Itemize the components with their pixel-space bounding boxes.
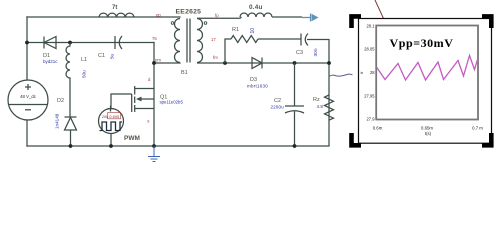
diode D3 [252, 58, 262, 69]
svg-text:28.1: 28.1 [367, 24, 376, 29]
svg-text:50u: 50u [82, 70, 87, 78]
svg-text:2200u: 2200u [271, 105, 285, 110]
svg-text:fp: fp [215, 13, 219, 18]
wire C1 to pm [153, 43, 155, 64]
node junction (154,63) [152, 61, 156, 65]
resistor R1 [231, 36, 258, 43]
inductor L1 [66, 43, 70, 118]
svg-text:mbrt1630: mbrt1630 [247, 84, 268, 89]
svg-text:L1: L1 [81, 57, 87, 63]
wire probe stub [272, 16, 302, 18]
svg-text:C2: C2 [274, 98, 281, 104]
node junction (154,146) [152, 144, 156, 148]
svg-text:5u: 5u [110, 53, 115, 59]
node junction (111,146) [109, 144, 113, 148]
node junction (70,42) [68, 41, 72, 45]
scope outer box [359, 19, 492, 144]
scope corner handle TL [352, 16, 362, 28]
svg-text:0.7 m: 0.7 m [472, 125, 483, 130]
source V1 dc [8, 80, 48, 120]
wire C3 to output node [307, 40, 329, 147]
svg-text:pm: pm [155, 58, 161, 63]
svg-text:byd21c: byd21c [43, 59, 58, 64]
node junction (296,146) [293, 144, 297, 148]
svg-text:D2: D2 [57, 98, 64, 104]
svg-text:27.95: 27.95 [364, 94, 375, 99]
wire R1 branch up [225, 39, 231, 63]
resistor Rz [325, 95, 334, 120]
transformer B1 [171, 19, 207, 63]
svg-text:0.4u: 0.4u [249, 4, 263, 11]
probe arrow [302, 14, 319, 22]
svg-text:20k 0.695: 20k 0.695 [102, 114, 120, 119]
svg-text:28: 28 [370, 70, 375, 75]
svg-text:Rz: Rz [313, 97, 320, 103]
capacitor C2 [285, 63, 304, 146]
svg-text:C3: C3 [296, 50, 303, 56]
diode D2 [65, 117, 77, 146]
svg-text:B1: B1 [181, 70, 188, 76]
wire top rail [27, 16, 180, 18]
capacitor C1 [115, 36, 122, 49]
svg-text:0.6m: 0.6m [373, 125, 383, 130]
svg-text:pp: pp [156, 13, 161, 18]
wire secondary top [197, 17, 242, 18]
node junction (27,42) [25, 41, 29, 45]
svg-text:R1: R1 [232, 27, 239, 33]
node junction (296,63) [293, 61, 297, 65]
svg-text:EE2625: EE2625 [176, 9, 202, 16]
svg-text:76: 76 [152, 36, 157, 41]
svg-text:spe11e02b5: spe11e02b5 [160, 100, 184, 105]
node junction (70.5,146) [69, 144, 73, 148]
Q1 arrow [136, 97, 142, 102]
svg-text:28.05: 28.05 [364, 47, 375, 52]
scope corner handle BR [482, 133, 491, 145]
scope waveform [377, 56, 478, 81]
wire secondary bottom [197, 62, 329, 64]
svg-text:10: 10 [250, 28, 256, 34]
scope corner handle BL [352, 133, 362, 145]
svg-text:17: 17 [211, 37, 216, 42]
wire R1 to C3 [258, 38, 301, 40]
capacitor C3 [301, 34, 308, 46]
svg-text:7t: 7t [112, 5, 117, 11]
svg-text:1n4148: 1n4148 [55, 113, 60, 129]
source PWM [99, 106, 124, 134]
svg-text:C1: C1 [98, 53, 105, 59]
svg-text:27.9: 27.9 [367, 117, 376, 122]
svg-text:s: s [147, 119, 149, 124]
inductor 7t [99, 13, 134, 17]
wire D1 branch [27, 42, 154, 44]
svg-text:PWM: PWM [124, 135, 140, 142]
transistor Q1 [132, 63, 154, 146]
ground [148, 146, 160, 162]
wire bottom rail [27, 145, 329, 147]
svg-text:t(s): t(s) [425, 131, 432, 136]
scope plot frame [376, 26, 478, 120]
wire PWM gate [111, 94, 132, 109]
diode D1 [44, 37, 56, 49]
inductor 0.4u [240, 13, 272, 17]
svg-text:0.65m: 0.65m [421, 125, 433, 130]
svg-text:D3: D3 [250, 77, 257, 83]
wire left vertical [26, 17, 28, 80]
node junction (329,63) [327, 61, 331, 65]
svg-text:48 V_dc: 48 V_dc [20, 94, 37, 99]
scope red link line [375, 0, 384, 19]
svg-text:Vpp=30mV: Vpp=30mV [390, 36, 454, 50]
scope corner handle TR [482, 16, 491, 28]
svg-text:30n: 30n [313, 48, 319, 56]
svg-text:4.8: 4.8 [317, 104, 324, 109]
wire PWM bottom [110, 134, 112, 147]
wire pm lead [154, 62, 180, 64]
node junction (225,63) [223, 61, 227, 65]
wire left bottom [26, 120, 28, 146]
svg-text:fm: fm [213, 55, 218, 60]
wire scope probe squiggle [329, 74, 353, 76]
